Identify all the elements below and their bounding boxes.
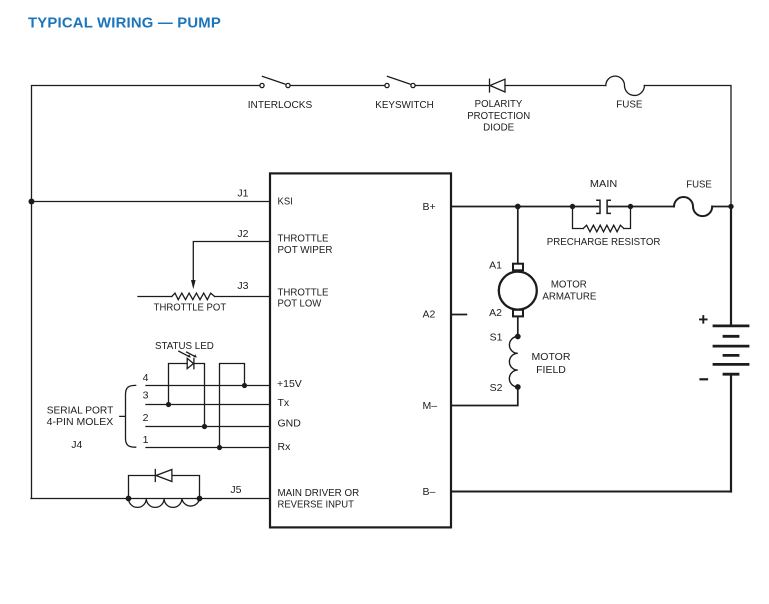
svg-text:THROTTLE: THROTTLE — [278, 286, 329, 298]
node S1 — [515, 334, 521, 340]
svg-text:ARMATURE: ARMATURE — [542, 290, 596, 302]
svg-text:INTERLOCKS: INTERLOCKS — [248, 99, 313, 111]
svg-text:4-PIN MOLEX: 4-PIN MOLEX — [47, 416, 114, 428]
wire: A2 stub from controller — [451, 314, 466, 316]
svg-text:2: 2 — [143, 412, 149, 424]
svg-text:M–: M– — [423, 400, 438, 412]
wire: J1 / KSI from left rail to controller — [31, 201, 270, 203]
svg-text:J1: J1 — [237, 187, 248, 199]
svg-text:STATUS LED: STATUS LED — [155, 340, 214, 352]
node: junction left rail / J1 — [29, 199, 35, 205]
resistor precharge — [547, 207, 661, 248]
wire: armature branch from B+ — [517, 207, 519, 264]
battery BT1 — [714, 207, 748, 492]
svg-text:THROTTLE POT: THROTTLE POT — [154, 301, 227, 313]
svg-text:POT WIPER: POT WIPER — [278, 244, 333, 256]
svg-text:KSI: KSI — [278, 196, 293, 208]
svg-text:J2: J2 — [237, 228, 248, 240]
wire: J3 throttle pot low — [215, 296, 270, 298]
wire: A2 terminal to S1 — [517, 316, 519, 336]
svg-text:S1: S1 — [490, 331, 503, 343]
svg-text:FUSE: FUSE — [616, 99, 642, 111]
svg-text:THROTTLE: THROTTLE — [278, 232, 329, 244]
label SERIAL PORT 4-PIN MOLEX J4 — [47, 404, 114, 451]
svg-text:MOTOR: MOTOR — [532, 351, 571, 363]
label battery plus — [700, 316, 707, 323]
svg-text:1: 1 — [143, 434, 149, 446]
wire: serial pin 2 (GND) — [146, 426, 270, 428]
label battery minus — [701, 378, 708, 380]
pin label THROTTLE POT WIPER — [278, 232, 333, 256]
svg-text:TYPICAL WIRING — PUMP: TYPICAL WIRING — PUMP — [28, 15, 221, 32]
wire: top rail left segment — [32, 86, 260, 499]
svg-text:4: 4 — [143, 372, 149, 384]
wire: top rail between diode and fuse — [505, 85, 606, 87]
node: B+ / battery rail junction — [728, 204, 733, 209]
svg-text:B+: B+ — [423, 201, 436, 213]
wire: J5 main driver input from left rail — [31, 498, 270, 500]
svg-text:3: 3 — [143, 389, 149, 401]
svg-text:PROTECTION: PROTECTION — [467, 110, 530, 122]
LED D2 status with loop from Tx to GND — [169, 351, 205, 426]
node: jumper on +15V line — [242, 383, 247, 388]
pin label THROTTLE POT LOW — [278, 286, 329, 309]
svg-text:J3: J3 — [237, 280, 248, 292]
svg-text:PRECHARGE RESISTOR: PRECHARGE RESISTOR — [547, 236, 661, 248]
node: armature branch junction on B+ — [515, 204, 521, 210]
wire: S2 to M- pin — [451, 387, 518, 406]
svg-text:FUSE: FUSE — [686, 178, 712, 190]
svg-text:J4: J4 — [71, 439, 82, 451]
wire: serial pin 3 (Tx) — [146, 404, 270, 406]
svg-text:POLARITY: POLARITY — [475, 98, 523, 110]
svg-text:MAIN DRIVER OR: MAIN DRIVER OR — [278, 487, 360, 499]
svg-text:A1: A1 — [489, 259, 502, 271]
pin label MAIN DRIVER OR REVERSE INPUT — [278, 487, 360, 511]
wire: top rail between interlocks and keyswitch — [291, 85, 384, 87]
svg-text:Rx: Rx — [278, 441, 292, 453]
svg-text:KEYSWITCH: KEYSWITCH — [375, 99, 434, 111]
node: precharge/main left junction — [570, 204, 575, 209]
wire: B- line from battery rail to controller — [451, 491, 731, 493]
diode D3 flyback across coil — [129, 470, 200, 499]
node: precharge/main right junction — [628, 204, 633, 209]
inductor motor field — [509, 337, 517, 388]
svg-text:GND: GND — [278, 418, 302, 430]
diode D1 polarity protection — [467, 79, 530, 133]
node: coil left junction — [126, 496, 132, 502]
wire: serial pin 4 (+15V) — [146, 385, 270, 387]
svg-text:MAIN: MAIN — [590, 178, 617, 190]
controller box U1 — [270, 173, 451, 527]
svg-text:J5: J5 — [230, 484, 241, 496]
wire: top rail between keyswitch and diode — [416, 85, 490, 87]
node: coil right junction — [197, 496, 203, 502]
wire: jumper loop Rx to +15V — [220, 364, 245, 448]
label MOTOR ARMATURE — [542, 278, 596, 302]
svg-text:SERIAL PORT: SERIAL PORT — [47, 404, 114, 416]
motor armature M1 — [499, 264, 537, 317]
wire: serial pin 1 (Rx) — [146, 447, 270, 449]
svg-text:Tx: Tx — [278, 397, 290, 409]
svg-text:REVERSE INPUT: REVERSE INPUT — [278, 499, 355, 511]
node S2 — [515, 384, 521, 390]
brace serial port connector — [120, 385, 136, 447]
node: LED leg on Tx line — [166, 402, 171, 407]
node: jumper on Rx line — [217, 445, 222, 450]
svg-text:DIODE: DIODE — [483, 122, 514, 134]
fuse F1 (top) — [606, 76, 645, 111]
inductor L1 coil on J5 line — [129, 499, 200, 508]
switch KEYSWITCH — [375, 76, 434, 111]
resistor throttle pot — [138, 293, 227, 313]
wire: J2 throttle pot wiper with arrow — [191, 228, 270, 289]
svg-text:MOTOR: MOTOR — [551, 278, 587, 290]
svg-text:S2: S2 — [490, 382, 503, 394]
label MOTOR FIELD — [532, 351, 571, 376]
svg-text:A2: A2 — [423, 309, 436, 321]
fuse F2 (battery) — [674, 178, 712, 216]
svg-text:B–: B– — [423, 486, 436, 498]
contactor MAIN tips — [597, 200, 610, 213]
svg-text:A2: A2 — [489, 307, 502, 319]
svg-text:POT LOW: POT LOW — [278, 298, 322, 310]
node: LED leg on GND line — [202, 424, 207, 429]
svg-text:FIELD: FIELD — [536, 364, 566, 376]
wire: top rail right segment and right rail down to B+ — [644, 86, 731, 207]
switch INTERLOCKS — [248, 76, 313, 111]
wire: B+ line from controller to battery rail — [451, 206, 731, 208]
svg-text:+15V: +15V — [277, 378, 302, 390]
